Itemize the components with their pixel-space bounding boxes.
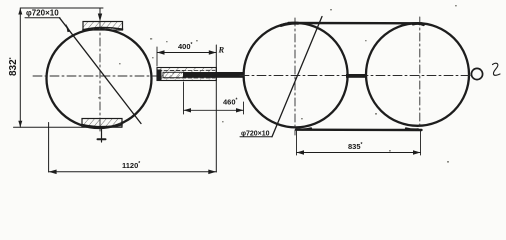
svg-text:R: R bbox=[218, 45, 225, 55]
scan speckle dots bbox=[98, 5, 457, 163]
svg-text:φ720×10: φ720×10 bbox=[241, 131, 270, 138]
horizontal centerline left circle bbox=[33, 75, 161, 77]
svg-text:835*: 835* bbox=[348, 142, 363, 151]
belt weld junction top right bbox=[413, 24, 424, 25]
tank shell right pair circle A bbox=[244, 23, 348, 127]
leader line phi720x10 through circle A bbox=[272, 17, 322, 137]
dimension 400 bbox=[157, 47, 216, 66]
svg-text:832*: 832* bbox=[8, 57, 19, 76]
dimension 460 bbox=[184, 82, 244, 114]
svg-text:460*: 460* bbox=[223, 98, 238, 107]
nozzle flange at sleeve left bbox=[158, 70, 162, 81]
extension line for 1120 left bbox=[48, 123, 50, 173]
connector bar between circle A and circle B bbox=[346, 74, 367, 78]
label phi720x10 top-left underline bbox=[25, 17, 60, 19]
leader arrowhead on left circle bbox=[66, 24, 71, 33]
diameter leader line through left circle bbox=[60, 18, 142, 124]
top pad (reinforcement plate) on left circle bbox=[83, 22, 123, 31]
long extension line right of sleeve bbox=[215, 45, 217, 172]
nozzle sleeve between tanks bbox=[157, 68, 216, 81]
tank shell left circle bbox=[47, 29, 152, 128]
vertical centerline circle B bbox=[419, 17, 421, 127]
bottom pad (saddle plate) on left circle bbox=[82, 119, 122, 128]
squiggle mark near lug bbox=[493, 63, 501, 75]
dimension 832 vertical line bbox=[18, 8, 22, 127]
tank shell right pair circle B bbox=[366, 23, 469, 126]
dimension line 1120 bbox=[49, 170, 217, 175]
belt weld junction bottom left bbox=[299, 128, 311, 129]
svg-text:400*: 400* bbox=[178, 42, 193, 51]
svg-text:1120*: 1120* bbox=[122, 161, 140, 170]
top extension line y=8 bbox=[20, 7, 103, 9]
top belt line right pair bbox=[289, 22, 422, 25]
bottom extension line y=118.3 bbox=[14, 126, 123, 128]
belt weld junction bottom right bbox=[406, 128, 418, 129]
vertical centerline circle A bbox=[294, 18, 296, 135]
datum mark below bottom pad bbox=[98, 127, 106, 142]
lifting lug small circle right bbox=[471, 68, 482, 79]
nozzle pipe dark bar bbox=[163, 72, 245, 78]
belt weld junction top left bbox=[281, 23, 298, 25]
bottom belt line right pair bbox=[296, 128, 422, 131]
vertical centerline left circle bbox=[99, 22, 101, 134]
dimension 835 bbox=[297, 131, 421, 155]
svg-text:φ720×10: φ720×10 bbox=[26, 9, 59, 18]
leader arrow down to top pad bbox=[98, 8, 102, 22]
label phi720x10 bottom underline bbox=[240, 136, 272, 138]
horizontal centerline right pair bbox=[240, 75, 470, 77]
